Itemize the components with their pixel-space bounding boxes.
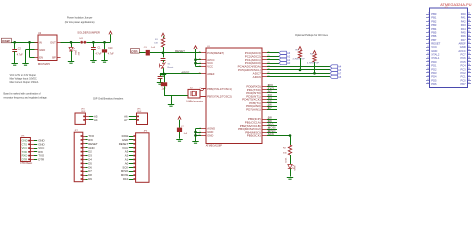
svg-text:PD4: PD4 xyxy=(431,75,437,79)
svg-text:XTAL2: XTAL2 xyxy=(431,53,440,57)
svg-text:BP: BP xyxy=(52,55,56,59)
svg-text:AVCC: AVCC xyxy=(458,49,465,53)
svg-text:EN: EN xyxy=(39,55,43,59)
svg-text:PD1: PD1 xyxy=(431,64,437,68)
svg-text:GND: GND xyxy=(460,45,466,49)
svg-text:PB4: PB4 xyxy=(431,27,437,31)
svg-text:RESET: RESET xyxy=(175,49,185,53)
svg-text:AVCC: AVCC xyxy=(207,58,214,62)
svg-text:4.7uF: 4.7uF xyxy=(108,54,114,56)
svg-text:Optional Pullups for I2C lines: Optional Pullups for I2C lines xyxy=(295,33,329,37)
svg-text:PC4: PC4 xyxy=(460,64,466,68)
svg-text:.1uF: .1uF xyxy=(161,88,166,90)
svg-text:VCC: VCC xyxy=(207,61,213,65)
svg-text:PA1: PA1 xyxy=(461,16,466,20)
svg-text:DTR: DTR xyxy=(38,157,44,161)
svg-text:SOLDERJUMPER: SOLDERJUMPER xyxy=(77,31,100,35)
svg-text:1X02: 1X02 xyxy=(137,111,141,113)
svg-text:PA0: PA0 xyxy=(461,12,466,16)
svg-text:Max Current Output: 150mA: Max Current Output: 150mA xyxy=(10,81,39,84)
svg-text:7: 7 xyxy=(200,88,201,90)
svg-text:PB0: PB0 xyxy=(431,12,437,16)
svg-text:C10: C10 xyxy=(108,48,113,50)
svg-text:ADC6: ADC6 xyxy=(253,75,261,79)
svg-text:10K: 10K xyxy=(154,42,158,44)
svg-text:PB3: PB3 xyxy=(431,23,437,27)
svg-text:A2: A2 xyxy=(287,54,291,58)
svg-text:A7: A7 xyxy=(124,118,128,122)
svg-text:PB6: PB6 xyxy=(431,34,437,38)
svg-text:PC1: PC1 xyxy=(460,75,466,79)
svg-text:MIC5205: MIC5205 xyxy=(38,62,51,66)
svg-text:A1: A1 xyxy=(287,58,291,62)
svg-text:PB1: PB1 xyxy=(431,16,437,20)
svg-text:SCK: SCK xyxy=(268,132,274,136)
svg-text:PC0: PC0 xyxy=(460,78,466,82)
svg-text:VCC is 5V or 3.3V Output: VCC is 5V or 3.3V Output xyxy=(10,74,37,77)
svg-text:PC6: PC6 xyxy=(460,56,466,60)
svg-text:Board is marked with combinati: Board is marked with combination of xyxy=(4,92,41,95)
svg-text:AGND: AGND xyxy=(207,127,215,131)
svg-text:PB7: PB7 xyxy=(431,38,437,42)
svg-text:PD0: PD0 xyxy=(431,60,437,64)
svg-text:A4: A4 xyxy=(94,118,98,122)
svg-text:PA2: PA2 xyxy=(461,19,466,23)
svg-text:GND: GND xyxy=(207,134,213,138)
svg-text:8: 8 xyxy=(200,95,201,97)
svg-text:4.7kNOPOP: 4.7kNOPOP xyxy=(293,58,306,60)
svg-text:VCC: VCC xyxy=(431,45,437,49)
svg-text:DTR: DTR xyxy=(131,49,138,53)
svg-text:GND: GND xyxy=(22,139,28,143)
svg-text:29: 29 xyxy=(199,52,201,54)
svg-text:DTR: DTR xyxy=(22,157,28,161)
svg-text:PA3: PA3 xyxy=(461,23,466,27)
svg-text:PD5: PD5 xyxy=(431,78,437,82)
svg-text:PD3: PD3 xyxy=(431,71,437,75)
svg-text:OUT: OUT xyxy=(50,40,56,44)
svg-text:VCC: VCC xyxy=(207,65,213,69)
svg-text:PD7: PD7 xyxy=(460,82,466,86)
svg-text:Max Voltage Input: 16VDC: Max Voltage Input: 16VDC xyxy=(10,77,37,80)
svg-text:ATMEGA328P: ATMEGA328P xyxy=(206,144,223,147)
svg-text:PB6(XTAL1/TOSC1): PB6(XTAL1/TOSC1) xyxy=(207,87,232,91)
svg-text:PA7: PA7 xyxy=(461,38,466,42)
svg-text:PB2: PB2 xyxy=(431,19,437,23)
svg-text:VCC: VCC xyxy=(22,146,28,150)
svg-text:FTDI Basic: FTDI Basic xyxy=(20,162,33,165)
svg-text:CTS: CTS xyxy=(22,142,28,146)
svg-text:GND: GND xyxy=(431,49,437,53)
svg-text:PC6(/RESET): PC6(/RESET) xyxy=(207,51,224,55)
svg-text:XTAL1: XTAL1 xyxy=(431,56,440,60)
svg-text:PB5(SCK): PB5(SCK) xyxy=(247,134,261,138)
svg-text:A5: A5 xyxy=(338,68,342,72)
svg-text:PD2: PD2 xyxy=(431,67,437,71)
svg-text:DIP Grid Breakout headers: DIP Grid Breakout headers xyxy=(93,98,124,101)
svg-text:PC5: PC5 xyxy=(460,60,466,64)
svg-text:PA6: PA6 xyxy=(461,34,466,38)
svg-text:A4: A4 xyxy=(338,65,342,69)
svg-text:RXD: RXD xyxy=(22,154,28,158)
svg-text:Reset: Reset xyxy=(168,66,174,69)
svg-text:PC3: PC3 xyxy=(460,67,466,71)
svg-text:TXD: TXD xyxy=(22,150,27,154)
svg-text:PC2: PC2 xyxy=(460,71,466,75)
svg-text:resonator frequency and regula: resonator frequency and regulated voltag… xyxy=(4,97,48,100)
svg-text:D9: D9 xyxy=(88,177,92,181)
svg-text:18: 18 xyxy=(199,59,201,61)
svg-text:.1uF: .1uF xyxy=(151,47,156,49)
svg-text:.1uF: .1uF xyxy=(183,133,188,135)
svg-text:A0: A0 xyxy=(287,61,291,65)
svg-text:D7: D7 xyxy=(268,106,272,110)
svg-text:PB7(XTAL2/TOSC2): PB7(XTAL2/TOSC2) xyxy=(207,94,232,98)
svg-text:20: 20 xyxy=(199,73,201,75)
svg-text:D10: D10 xyxy=(123,177,129,181)
svg-text:RED: RED xyxy=(76,49,78,54)
svg-text:PB5: PB5 xyxy=(431,30,437,34)
svg-text:(for low power applications): (for low power applications) xyxy=(65,21,95,24)
svg-text:16MHz/resonator: 16MHz/resonator xyxy=(186,100,203,103)
svg-text:GRN: GRN xyxy=(295,165,297,170)
svg-text:PA5: PA5 xyxy=(461,30,466,34)
svg-text:PA4: PA4 xyxy=(461,27,466,31)
svg-text:1X02: 1X02 xyxy=(81,111,85,113)
svg-text:LED1: LED1 xyxy=(286,157,288,163)
svg-text:IN: IN xyxy=(39,40,42,44)
svg-text:4: 4 xyxy=(200,62,201,64)
svg-text:AREF: AREF xyxy=(181,70,189,74)
svg-text:GND: GND xyxy=(39,48,45,52)
svg-text:4.7uF: 4.7uF xyxy=(17,54,23,56)
svg-text:PD6: PD6 xyxy=(431,82,437,86)
svg-text:A6: A6 xyxy=(338,75,342,79)
svg-text:AREF: AREF xyxy=(459,41,467,45)
svg-text:RAW: RAW xyxy=(2,39,9,43)
svg-text:Power Isolation Jumper: Power Isolation Jumper xyxy=(67,17,93,20)
svg-text:PD7(AIN1): PD7(AIN1) xyxy=(246,107,261,111)
svg-text:A3: A3 xyxy=(287,51,291,55)
svg-text:IC3: IC3 xyxy=(445,7,448,9)
svg-text:4.7kNOPOP: 4.7kNOPOP xyxy=(307,62,320,64)
svg-text:4.7uF: 4.7uF xyxy=(96,53,102,55)
svg-text:PC7: PC7 xyxy=(460,53,466,57)
svg-text:AREF: AREF xyxy=(207,72,215,76)
svg-text:RESET: RESET xyxy=(431,41,440,45)
svg-text:A7: A7 xyxy=(338,71,342,75)
svg-text:6: 6 xyxy=(200,65,201,67)
svg-text:GND: GND xyxy=(207,130,213,134)
